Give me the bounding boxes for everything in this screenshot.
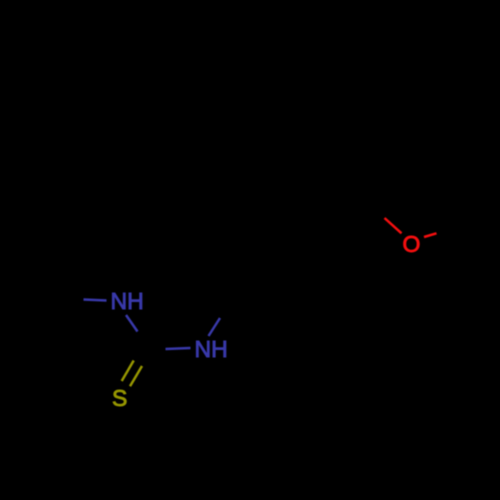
svg-text:O: O (403, 231, 421, 257)
svg-text:NH: NH (111, 288, 144, 314)
wire: bond N2 to CH (blue half) (209, 318, 221, 336)
svg-text:S: S (112, 385, 127, 411)
wire: bond ring-C to O (red half) (385, 218, 402, 233)
wire: C=S double bond line 1 (olive half) (122, 361, 134, 382)
wire: C=S double bond line 2 (olive half) (130, 366, 142, 386)
wire: bond N1 to central C (blue half) (126, 315, 138, 332)
wire: bond central C to N2 (blue half) (166, 348, 191, 349)
wire: bond CH3 to N1 (blue half) (84, 300, 107, 301)
svg-text:NH: NH (195, 336, 228, 362)
wire: bond O to CH3 (red half) (424, 233, 437, 237)
